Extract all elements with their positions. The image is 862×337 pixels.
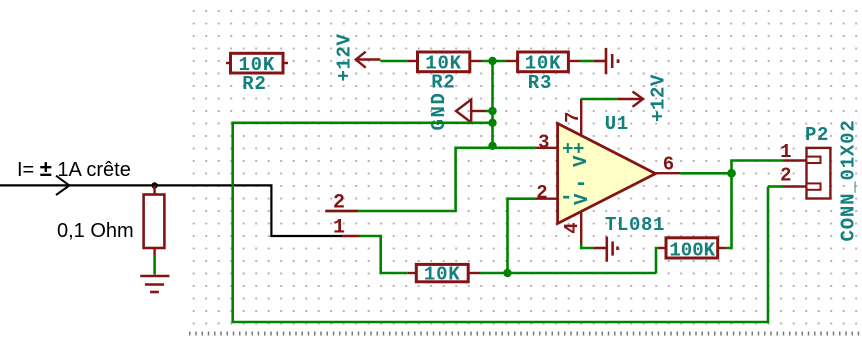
connector P2 pin 2 tab [807,183,821,189]
svg-text:R3: R3 [528,72,552,94]
wire: pin 7 to +12V [581,98,618,101]
wire: R3 to ground [580,60,594,63]
svg-text:1: 1 [780,141,791,163]
resistor 0,1 Ohm [144,195,165,249]
svg-text:100K: 100K [669,239,715,261]
svg-text:U1: U1 [605,113,629,135]
svg-text:CONN_01X02: CONN_01X02 [838,119,860,241]
resistor R2 [418,52,470,72]
arrow on input wire [56,176,69,195]
wire: 100K right up to output node [727,173,732,248]
GND flag [456,100,486,123]
resistor R2 (spare, top-left) pins [226,62,231,64]
svg-text:GND: GND [428,91,450,130]
resistor 100K pins [658,247,666,249]
connector P2 pin 1 tab [807,157,821,163]
node: output junction [727,169,736,178]
svg-text:2: 2 [536,182,547,204]
svg-text:V: V [570,155,592,167]
wire: output to P2 pin 1 [732,161,784,174]
svg-text:10K: 10K [424,263,461,285]
svg-text:TL081: TL081 [605,214,665,236]
wire: divider vertical [491,61,494,146]
svg-text:I= ± 1A crête: I= ± 1A crête [17,156,131,181]
svg-text:2: 2 [780,164,791,186]
wire: shunt to ground [153,255,156,275]
connector P2 pin 2 [783,185,807,187]
wire: R2 to R3 [482,60,506,63]
wire: net 2 to pin 3 [325,148,536,211]
op-amp U1 pin 2 [536,197,558,199]
op-amp U1 pin 6 [654,172,680,174]
svg-text:-: - [574,172,587,197]
svg-text:3: 3 [538,132,549,154]
svg-text:R2: R2 [242,73,266,95]
resistor R3 pins [506,60,518,62]
wire: long loop right vertical [767,187,770,324]
svg-text:+12V: +12V [648,74,670,122]
op-amp U1 pin 7 [580,99,582,137]
wire: P2 pin 2 [768,185,783,188]
svg-text:2: 2 [333,192,345,215]
node: inverting junction [503,269,511,277]
svg-text:V: V [571,193,593,205]
wire: inverting node up to pin 2 [508,199,537,273]
ground below shunt [140,276,169,292]
node: divider junction [488,57,496,65]
bottom edge tick row [189,332,862,336]
resistor R2 (spare, top-left) [231,53,284,73]
grid dot field [188,0,862,332]
wire: +12V to R2 [380,60,408,63]
ground right of R3 [594,48,618,74]
wire: net 1 to 10K [360,236,408,273]
power +12V flag (right) [618,92,643,107]
svg-text:-: - [560,185,573,210]
svg-text:P2: P2 [805,124,829,146]
svg-text:7: 7 [562,112,584,123]
op-amp U1 pin 3 [536,147,558,149]
svg-text:R2: R2 [431,72,455,94]
resistor R3 [518,52,569,72]
node: gnd flag junction [488,107,496,115]
wire: long loop left vertical [231,122,234,323]
ground below op-amp [594,237,618,262]
resistor 100K [666,238,718,258]
wire: pin 4 to ground [581,244,594,248]
svg-text:+12V: +12V [334,33,356,81]
resistor 0,1 Ohm pin top [153,186,155,195]
wire: gnd flag stub [486,110,493,113]
net label 1 segment [342,235,360,237]
wire: 10K to inverting node [480,272,656,275]
connector P2 pin 1 [783,159,807,161]
svg-text:0,1 Ohm: 0,1 Ohm [57,220,134,242]
wire: long loop left horizontal [233,122,493,125]
op-amp U1 triangle [558,123,656,223]
connector P2 body [807,148,831,199]
wire: output [680,172,731,175]
svg-text:4: 4 [561,222,583,233]
wire: long loop bottom [231,321,768,324]
wire: main input black wire horizontal [0,185,342,236]
svg-text:1: 1 [333,217,345,240]
resistor 10K (bottom) pins [408,272,417,274]
op-amp U1 pin 4 [580,210,582,244]
power +12V flag (left) [356,52,381,68]
resistor R2 pins [408,60,418,62]
resistor 10K (bottom) [416,264,468,281]
svg-text:6: 6 [663,154,674,176]
node: shunt top junction [151,182,157,188]
resistor 0,1 Ohm pin bottom [153,248,155,255]
wire: up to 100K left [656,248,658,273]
node: loop wire junction [488,119,496,127]
net label 2 segment [325,210,358,212]
node: pin3 junction [488,142,496,150]
